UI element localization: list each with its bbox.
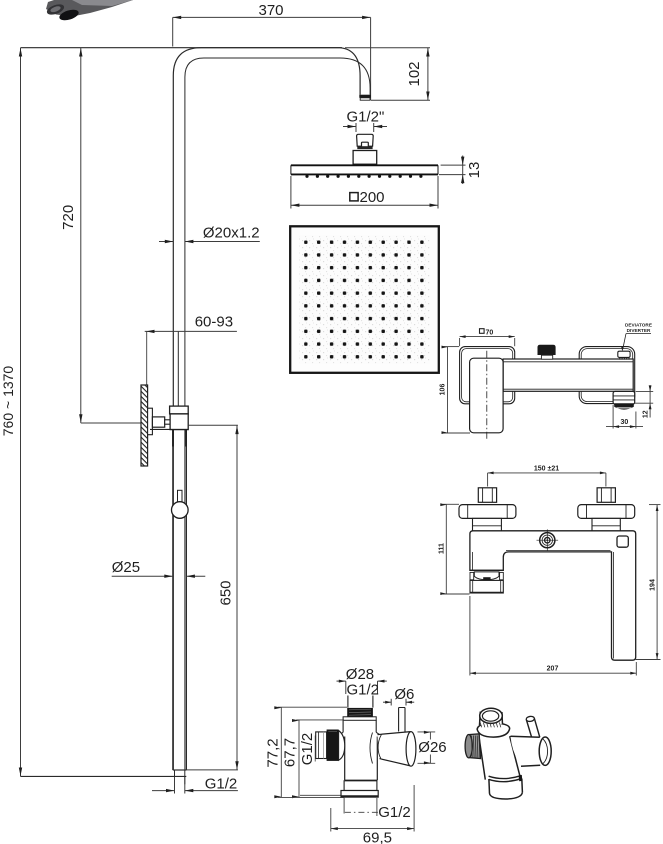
svg-text:650: 650 <box>218 580 235 605</box>
right escutcheon (front) <box>578 505 635 519</box>
nozzles under plate <box>305 175 422 178</box>
bracket connector <box>165 420 170 424</box>
dimension square70 <box>460 329 515 347</box>
left inlet nut <box>478 488 496 503</box>
temperature knob (black) <box>538 345 556 355</box>
svg-text:60-93: 60-93 <box>195 314 233 331</box>
dimension D26 <box>418 731 447 765</box>
dimension D28 <box>337 666 387 699</box>
diverter knob <box>618 351 630 357</box>
threaded section G1/2 (black) <box>347 708 373 717</box>
hose cone (right) <box>370 732 416 767</box>
dimension 77,2 <box>265 706 348 798</box>
shower arm end connector <box>359 95 371 98</box>
wall collar <box>148 408 153 435</box>
slider block lower <box>170 414 188 430</box>
svg-text:106: 106 <box>440 384 447 396</box>
bottom reference line <box>21 775 187 777</box>
3d diverter valve <box>477 708 520 779</box>
shower head face (square, perforated) <box>290 226 439 372</box>
dimension 370 (top) <box>173 2 371 100</box>
dimension 30 (spout) <box>606 405 643 429</box>
svg-text:67,7: 67,7 <box>282 738 299 767</box>
spout (side view) <box>613 391 635 409</box>
shower head plate (side view) <box>291 165 438 174</box>
svg-text:G1/2": G1/2" <box>347 108 385 125</box>
bracket arm <box>152 417 164 427</box>
svg-text:111: 111 <box>439 543 446 554</box>
label G1/2 (bottom outlet) <box>344 798 411 821</box>
dimension 67,7 <box>282 719 345 798</box>
dimension 150 +-21 <box>488 466 606 487</box>
D6 pin <box>399 708 405 732</box>
dimension 12 (spout) <box>635 385 654 418</box>
dimension 207 <box>470 596 636 676</box>
dimension G1/2 (bottom) <box>152 775 238 793</box>
right connecting neck <box>592 518 620 531</box>
head mounting block <box>353 151 377 165</box>
dimension D6 <box>383 686 414 706</box>
wall escutcheon (side view, rounded) <box>579 347 635 404</box>
3d bottom outlet <box>489 775 523 799</box>
dimension 111 <box>439 503 470 595</box>
hand shower photo fragment (top-left) <box>46 0 133 22</box>
svg-text:69,5: 69,5 <box>363 830 392 844</box>
label G1/2 (left, rotated) <box>299 733 316 766</box>
dimension square200 <box>291 176 438 209</box>
shower column pipe inner edge <box>185 58 370 770</box>
dimension 194 <box>636 505 661 660</box>
svg-text:200: 200 <box>360 189 385 206</box>
label G1/2 inch (head connector) <box>343 108 387 132</box>
top reference line y=47.5 <box>21 47 343 49</box>
dimension 650 <box>186 425 238 770</box>
svg-text:70: 70 <box>486 329 494 336</box>
dimension 106 <box>440 346 471 434</box>
svg-text:DIVERTER: DIVERTER <box>627 328 651 333</box>
dimension 69,5 <box>331 785 414 844</box>
wall mounting bracket (hatched) <box>141 385 148 466</box>
svg-text:Ø28: Ø28 <box>346 666 374 683</box>
bottom G1/2 stub <box>174 770 176 784</box>
svg-text:G1/2: G1/2 <box>347 682 380 699</box>
mixer body (side) <box>503 359 633 391</box>
dimension 60-93 <box>145 314 237 385</box>
dimension 102 <box>345 48 430 100</box>
slider block upper <box>170 406 189 414</box>
handle end cap (rounded square) <box>460 347 515 404</box>
svg-text:720: 720 <box>60 205 77 230</box>
slider knob <box>178 490 183 502</box>
lever handle (side) <box>470 358 504 433</box>
3d left port (threaded, dark) <box>465 734 480 759</box>
svg-text:G1/2: G1/2 <box>378 804 411 821</box>
svg-text:150 ±21: 150 ±21 <box>534 466 559 473</box>
svg-text:77,2: 77,2 <box>265 738 282 767</box>
aerator (front, concentric circles) <box>537 529 559 551</box>
svg-text:12: 12 <box>642 410 649 418</box>
3d right port <box>511 736 552 766</box>
dimension 13 (plate thickness) <box>439 156 483 185</box>
holder base <box>341 780 378 797</box>
left connecting neck <box>473 518 502 531</box>
dimension D25 <box>112 559 206 578</box>
spout front detail <box>470 570 503 593</box>
svg-text:G1/2: G1/2 <box>205 775 238 792</box>
svg-text:760 ~ 1370: 760 ~ 1370 <box>0 366 16 437</box>
mixer body front (L shape) <box>470 531 636 660</box>
collar under threads <box>337 717 383 737</box>
holder main body <box>345 737 378 781</box>
diverter button (front) <box>617 536 628 547</box>
svg-text:30: 30 <box>621 419 629 426</box>
holder top stem <box>348 696 373 708</box>
svg-text:194: 194 <box>649 579 656 591</box>
svg-text:G1/2: G1/2 <box>299 733 316 766</box>
lower pipe (D25) edges <box>172 430 174 770</box>
right inlet nut <box>597 488 615 503</box>
shower column pipe outer edge <box>173 48 360 770</box>
svg-text:DEVIATORE: DEVIATORE <box>625 323 652 328</box>
3d small pipe <box>526 716 540 739</box>
left knob (G1/2 side) <box>316 730 345 761</box>
bottom extension line (holder) <box>278 796 345 798</box>
svg-text:13: 13 <box>466 162 483 179</box>
dimension D20x1.2 <box>159 225 260 244</box>
inner sliding pipe line <box>177 331 179 406</box>
dimension 720 <box>60 48 141 423</box>
svg-text:Ø6: Ø6 <box>394 686 414 703</box>
handle centre line <box>486 351 488 440</box>
svg-text:Ø20x1.2: Ø20x1.2 <box>203 225 260 242</box>
svg-text:Ø26: Ø26 <box>418 739 446 756</box>
svg-text:102: 102 <box>406 61 423 86</box>
label DEVIATORE / DIVERTER <box>621 323 652 352</box>
svg-text:Ø25: Ø25 <box>112 559 140 576</box>
svg-text:370: 370 <box>259 2 284 19</box>
ball joint <box>357 134 374 146</box>
svg-text:207: 207 <box>547 666 559 673</box>
left escutcheon (front) <box>459 505 516 519</box>
dimension 760 ~ 1370 (far left) <box>0 48 22 777</box>
